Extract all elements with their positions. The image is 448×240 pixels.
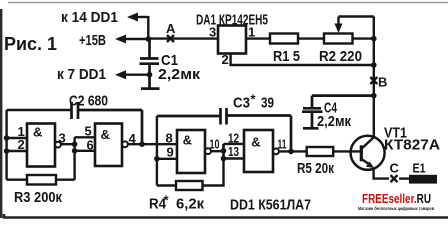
wire top to C2 xyxy=(7,109,71,111)
svg-text:DA1 КР142ЕН5: DA1 КР142ЕН5 xyxy=(196,12,268,29)
node junction C3 return xyxy=(288,149,294,155)
svg-text:В: В xyxy=(378,75,387,90)
wire pin3 to gate2 input xyxy=(61,143,75,145)
voltage regulator DA1 xyxy=(218,26,246,54)
node junction pin3-pin6 xyxy=(72,141,78,147)
pin 9 wire xyxy=(157,158,177,160)
wire emitter down xyxy=(374,168,389,179)
svg-text:E1: E1 xyxy=(413,161,426,176)
pin 5 wire xyxy=(75,136,95,138)
node junction pin10 tie xyxy=(221,148,227,154)
inversion circle output pin 10 xyxy=(205,148,211,154)
node junction R3 tap xyxy=(72,148,78,154)
svg-text:6: 6 xyxy=(87,138,94,153)
resistor R5 xyxy=(307,147,334,156)
node junction pin13 xyxy=(221,156,227,162)
wire R2 to bus xyxy=(353,37,374,39)
node junction pin9 xyxy=(154,156,160,162)
wire R5 to base xyxy=(333,150,361,152)
svg-text:8: 8 xyxy=(166,131,173,146)
node junction R2 output xyxy=(371,36,377,42)
measurement point A marker xyxy=(167,35,174,42)
svg-text:2,2мк: 2,2мк xyxy=(317,113,351,130)
frame left border xyxy=(0,9,2,218)
svg-text:10: 10 xyxy=(210,137,220,152)
svg-text:Магазин бесплатных цифровых то: Магазин бесплатных цифровых товаров xyxy=(358,205,434,211)
svg-text:C: C xyxy=(390,161,400,176)
svg-text:R5 20к: R5 20к xyxy=(297,160,334,177)
svg-text:9: 9 xyxy=(167,145,174,160)
svg-text:к 7 DD1: к 7 DD1 xyxy=(57,66,106,83)
inversion circle output pin 4 xyxy=(122,141,128,147)
svg-text:C2 680: C2 680 xyxy=(69,93,108,110)
resistor R2 trimmer xyxy=(324,34,353,44)
capacitor C3 xyxy=(157,108,291,151)
R2 wiper arrow loop xyxy=(335,17,374,39)
wire gate2 input tie xyxy=(73,137,75,179)
svg-text:2: 2 xyxy=(18,137,25,152)
gate DD1.3 xyxy=(177,130,205,173)
wire to load E1 xyxy=(399,177,410,179)
wire supply bus vertical xyxy=(373,39,375,137)
svg-text:+15В: +15В xyxy=(79,32,106,49)
node junction common rail xyxy=(371,62,377,68)
load element E1 xyxy=(409,175,437,184)
svg-text:R1 5: R1 5 xyxy=(273,48,300,65)
capacitor C4 xyxy=(302,96,374,129)
wire pin4 to gate3 xyxy=(128,143,177,145)
svg-text:5: 5 xyxy=(85,124,92,139)
gate DD1.4 xyxy=(244,130,273,172)
pin 12 wire xyxy=(224,143,245,145)
pin 2 wire xyxy=(7,150,27,152)
pin 13 wire xyxy=(224,157,245,159)
node junction C1 negative xyxy=(147,72,153,78)
inversion circle output pin 11 xyxy=(273,149,279,155)
pin 1 wire xyxy=(7,137,27,139)
measurement point В marker xyxy=(370,77,377,84)
wire left rail of oscillator xyxy=(5,110,7,180)
svg-text:39: 39 xyxy=(261,95,274,112)
frame top border xyxy=(8,2,448,4)
svg-text:2: 2 xyxy=(222,52,229,67)
svg-text:C3: C3 xyxy=(233,95,250,112)
svg-text:11: 11 xyxy=(278,137,287,152)
svg-text:DD1 К561ЛА7: DD1 К561ЛА7 xyxy=(230,197,311,214)
wire to pin 7 with arrow xyxy=(115,70,150,79)
resistor R1 xyxy=(270,34,298,44)
svg-text:Рис. 1: Рис. 1 xyxy=(4,33,57,54)
svg-text:1: 1 xyxy=(248,25,255,40)
inversion circle output pin 3 xyxy=(55,142,61,148)
svg-text:&: & xyxy=(33,125,42,140)
node junction pin1 xyxy=(4,135,10,141)
svg-text:13: 13 xyxy=(228,144,239,159)
node junction pin2 xyxy=(4,148,10,154)
svg-text:R3 200к: R3 200к xyxy=(14,189,62,206)
pin 6 wire xyxy=(75,150,95,152)
svg-text:&: & xyxy=(251,135,260,150)
node junction at +15V rail xyxy=(146,36,152,42)
svg-text:A: A xyxy=(166,21,176,36)
transistor VT1 xyxy=(351,136,385,170)
node junction C2 return xyxy=(139,141,145,147)
capacitor C1 xyxy=(140,39,160,89)
svg-text:R2 220: R2 220 xyxy=(319,48,362,65)
svg-text:&: & xyxy=(183,133,192,148)
wire pin11 to R5 xyxy=(279,150,307,152)
svg-text:&: & xyxy=(101,127,110,142)
svg-text:6,2к: 6,2к xyxy=(176,196,204,213)
gate DD1.2 xyxy=(95,124,122,167)
wire gate4 input tie xyxy=(222,144,224,159)
wire +15V rail to DA1 input xyxy=(148,37,218,39)
svg-text:2,2мк: 2,2мк xyxy=(158,66,201,83)
wire to pin 14 with arrow xyxy=(127,13,148,41)
wire pin10 to gate4 xyxy=(211,150,224,152)
wire DA1 output to R1 xyxy=(246,37,270,39)
svg-text:3: 3 xyxy=(209,25,216,40)
wire gate3 input tie xyxy=(156,116,158,186)
frame bottom border xyxy=(4,214,448,218)
resistor R3 xyxy=(7,175,75,185)
resistor R4 xyxy=(157,144,224,190)
wire +15V with arrow xyxy=(115,35,149,44)
capacitor C2 xyxy=(72,102,143,144)
gate DD1.1 xyxy=(27,124,55,167)
svg-text:к 14 DD1: к 14 DD1 xyxy=(61,9,118,26)
svg-text:FREEseller.RU: FREEseller.RU xyxy=(362,191,431,206)
measurement point C marker xyxy=(391,175,398,182)
node junction C4 tap xyxy=(371,93,377,99)
svg-text:КТ827А: КТ827А xyxy=(384,137,440,154)
wire DA1 pin2 common xyxy=(231,54,374,66)
wire R1 to R2 xyxy=(298,37,324,39)
